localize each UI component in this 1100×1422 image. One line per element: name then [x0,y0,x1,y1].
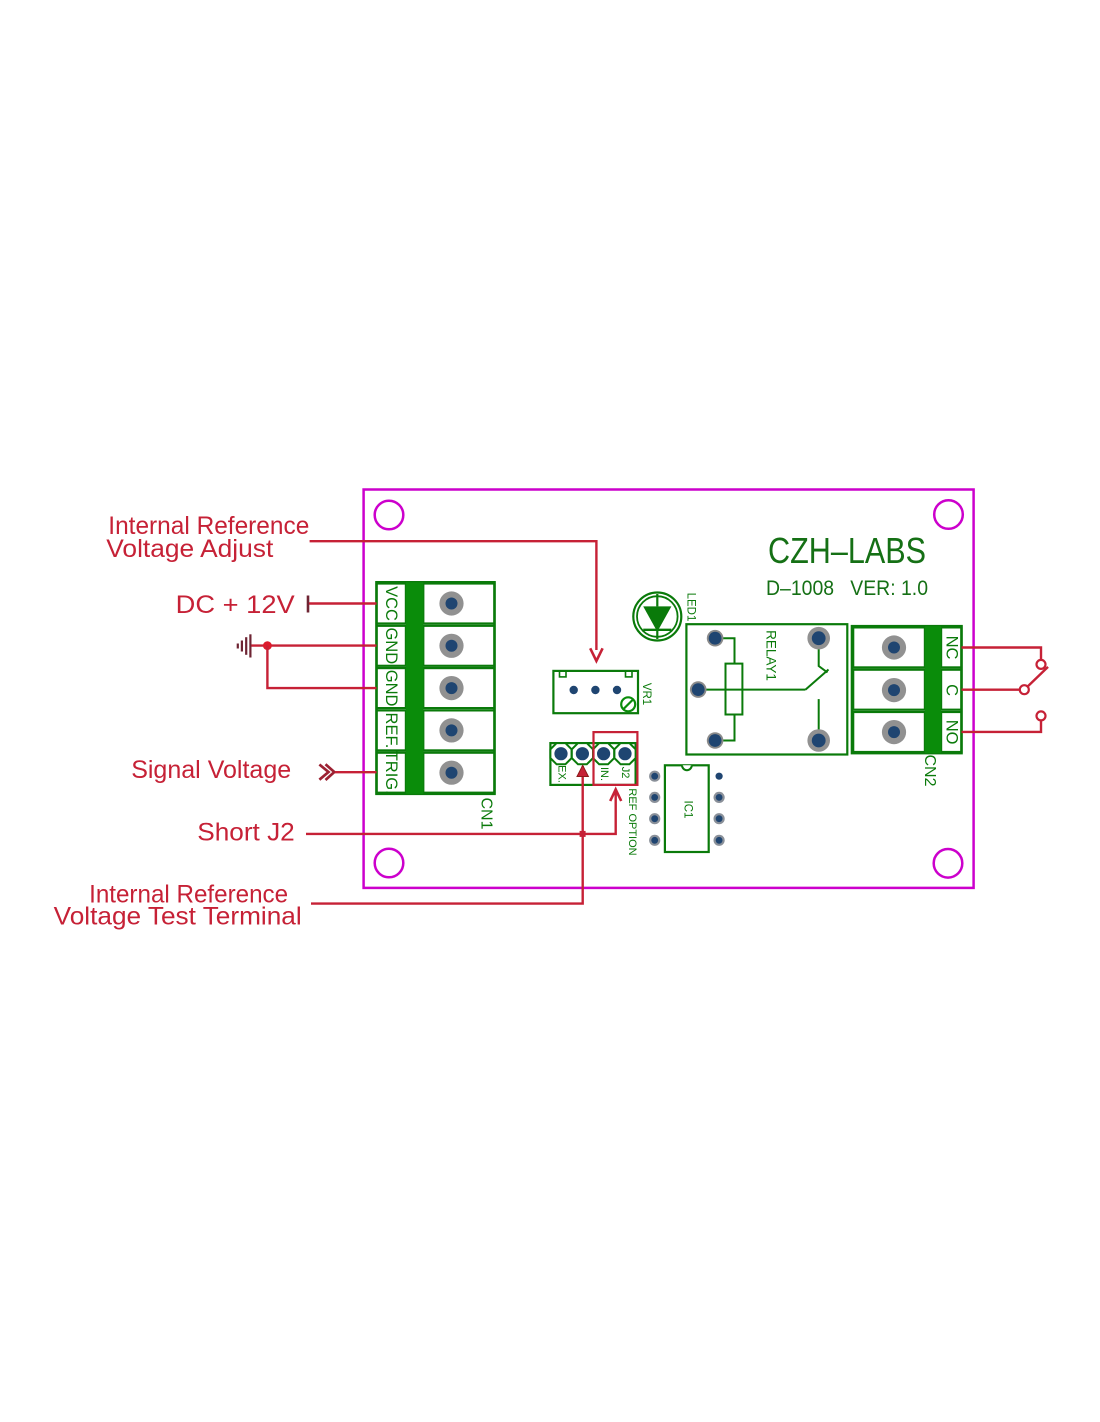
arrowhead at J2 pin 2 [577,765,588,776]
VR1 pin 2 [591,686,599,694]
CN1 screw 5 [439,761,463,785]
switch arm [806,670,829,690]
CN2 screw 2 [882,678,906,702]
CN1 screw 2 [439,634,463,658]
IC1 pads left [649,771,660,782]
mounting hole bottom-left [375,849,404,878]
wire coil bottom [715,715,734,741]
CN2 screw 1 [882,635,906,659]
svg-text:Voltage Test Terminal: Voltage Test Terminal [54,902,302,930]
svg-text:NC: NC [942,636,960,660]
junction square [580,831,586,837]
svg-text:DC + 12V: DC + 12V [176,591,295,619]
NC contact circle [1037,660,1046,669]
wire: VCC [307,596,310,613]
svg-text:CN1: CN1 [478,797,495,829]
svg-text:VR1: VR1 [640,683,652,705]
svg-text:IN.: IN. [598,767,610,781]
mounting hole bottom-right [934,849,963,878]
svg-text:Short J2: Short J2 [197,819,295,847]
wire: C [962,689,1020,691]
NO contact stem [818,699,820,737]
svg-text:RELAY1: RELAY1 [764,630,779,681]
arrowhead at VR1 [590,648,602,661]
svg-text:IC1: IC1 [682,801,694,819]
wire: GND2 [267,646,376,689]
CN1 screw 4 [439,718,463,742]
CN1 screw 1 [439,591,463,615]
CN1 screw 3 [439,676,463,700]
junction dot [263,641,272,650]
svg-text:GND: GND [382,627,400,664]
C pole circle [1020,685,1029,694]
wire: test terminal pointer [311,766,583,904]
LED LED1 [633,593,681,641]
NO contact circle [1037,711,1046,720]
svg-text:CZH–LABS: CZH–LABS [768,530,926,571]
ground symbol [238,634,251,657]
svg-text:J2: J2 [619,767,631,779]
svg-text:NO: NO [942,720,960,745]
J2 pad 3 IN [593,743,614,764]
jumper header J2 outline [550,743,635,785]
terminal block CN2 [852,626,962,753]
wire common [698,689,805,691]
NC contact stem [819,642,828,673]
svg-text:REF OPTION: REF OPTION [626,788,638,855]
VR1 pin 1 [570,686,578,694]
svg-text:VCC: VCC [382,586,400,621]
svg-text:Voltage Adjust: Voltage Adjust [106,535,273,563]
wire: adjust pointer [310,541,597,650]
switch arm [1028,667,1048,686]
terminal block CN1 [377,582,495,794]
IC IC1 [665,765,709,852]
wire: GND1 [251,644,376,646]
wire: NO [962,720,1042,732]
relay RELAY1 [686,624,847,754]
svg-text:Signal Voltage: Signal Voltage [131,756,291,784]
svg-text:CN2: CN2 [921,754,938,786]
J2 pad 2 test terminal [572,743,593,764]
mounting hole top-left [375,501,404,530]
svg-text:C: C [942,684,960,696]
arrowhead at REF OPTION [610,789,621,801]
board outline [364,490,974,888]
chevron symbol [319,765,328,780]
RELAY1 coil pads [707,630,724,647]
IC1 pads right [716,773,723,780]
svg-text:REF.: REF. [382,713,400,749]
J2 red option box [594,732,638,785]
J2 pad 1 EX [550,743,571,764]
mounting hole top-right [934,500,963,529]
wire: short J2 pointer [306,791,616,834]
J2 pad 4 [614,743,635,764]
wire coil top [715,638,734,663]
VR1 adjust screw [621,697,635,711]
svg-text:TRIG.: TRIG. [382,751,400,795]
potentiometer VR1 [553,671,638,713]
svg-text:LED1: LED1 [685,593,697,622]
svg-text:EX.: EX. [556,765,568,783]
RELAY1 contact pads [807,627,830,650]
svg-text:D–1008 VER: 1.0: D–1008 VER: 1.0 [766,576,928,600]
svg-text:GND: GND [382,670,400,707]
RELAY1 coil [726,664,743,715]
VR1 pin 3 [613,686,621,694]
wire: NC [962,648,1042,660]
CN2 screw 3 [882,720,906,744]
wire: TRIG [335,771,377,773]
